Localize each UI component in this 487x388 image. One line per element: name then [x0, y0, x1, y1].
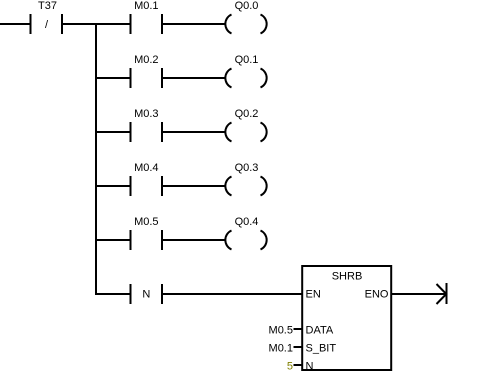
- svg-text:EN: EN: [306, 289, 321, 301]
- svg-text:M0.4: M0.4: [134, 162, 158, 174]
- svg-text:SHRB: SHRB: [332, 271, 363, 283]
- svg-text:S_BIT: S_BIT: [306, 343, 337, 355]
- svg-text:Q0.3: Q0.3: [235, 162, 259, 174]
- svg-text:M0.1: M0.1: [269, 343, 293, 355]
- svg-text:T37: T37: [38, 0, 57, 12]
- svg-text:Q0.1: Q0.1: [235, 54, 259, 66]
- svg-text:Q0.4: Q0.4: [235, 216, 259, 228]
- svg-text:/: /: [45, 19, 49, 31]
- svg-text:M0.2: M0.2: [134, 54, 158, 66]
- svg-text:ENO: ENO: [365, 289, 389, 301]
- svg-text:Q0.0: Q0.0: [235, 0, 259, 12]
- svg-text:M0.5: M0.5: [269, 325, 293, 337]
- svg-text:N: N: [306, 361, 314, 373]
- svg-text:M0.3: M0.3: [134, 108, 158, 120]
- svg-text:DATA: DATA: [306, 325, 334, 337]
- svg-text:Q0.2: Q0.2: [235, 108, 259, 120]
- svg-text:5: 5: [287, 361, 293, 373]
- svg-text:M0.5: M0.5: [134, 216, 158, 228]
- svg-text:M0.1: M0.1: [134, 0, 158, 12]
- svg-text:N: N: [142, 289, 150, 301]
